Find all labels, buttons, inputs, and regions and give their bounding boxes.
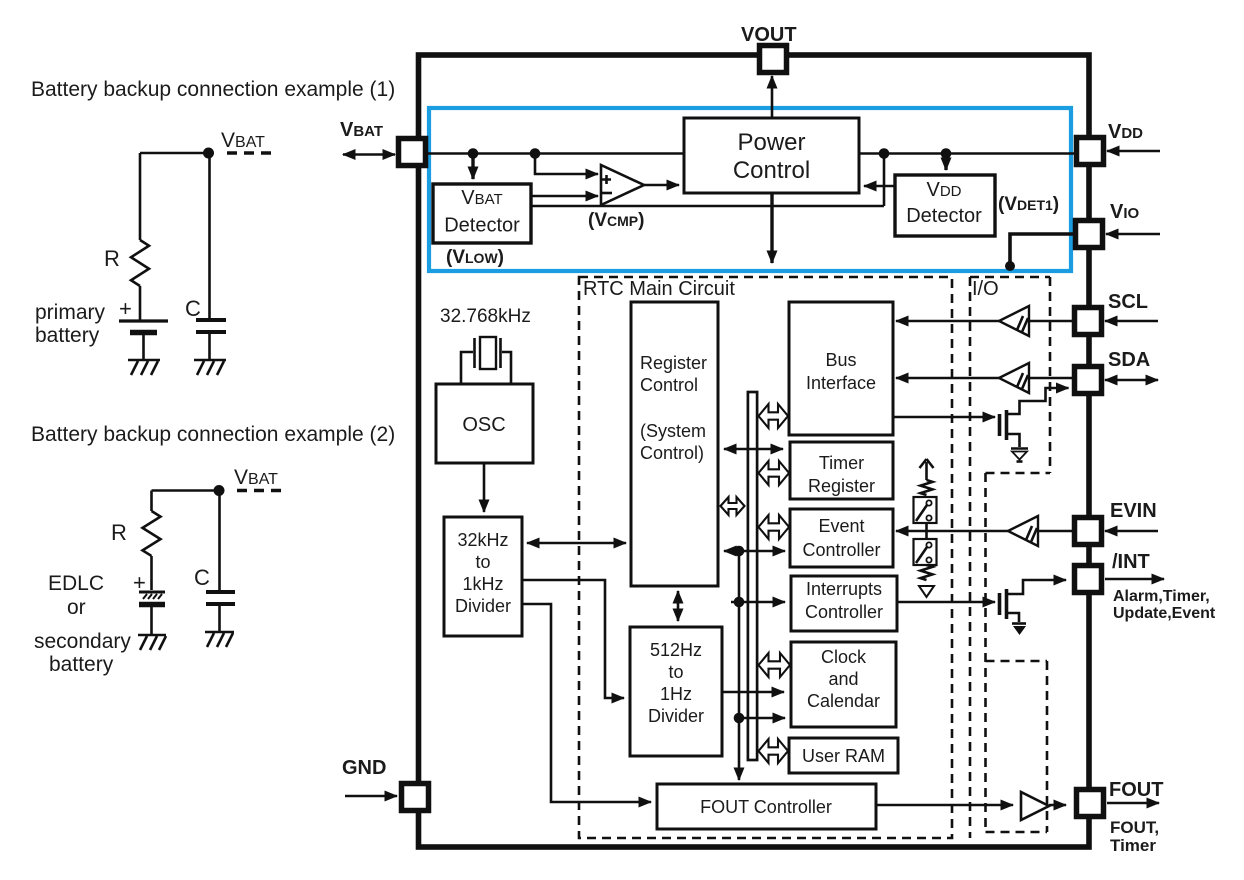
svg-text:(VCMP): (VCMP) <box>588 210 644 231</box>
svg-text:32.768kHz: 32.768kHz <box>440 306 531 327</box>
svg-text:Control: Control <box>733 157 810 184</box>
svg-text:to: to <box>475 552 490 572</box>
svg-text:to: to <box>668 662 683 682</box>
svg-text:Detector: Detector <box>906 205 982 227</box>
svg-text:512Hz: 512Hz <box>650 640 702 660</box>
svg-text:and: and <box>828 669 858 689</box>
svg-text:EDLC: EDLC <box>48 572 104 595</box>
svg-text:Bus: Bus <box>825 350 856 370</box>
svg-text:primary: primary <box>35 301 106 324</box>
svg-text:Update,Event: Update,Event <box>1113 605 1216 622</box>
svg-text:+: + <box>133 570 146 595</box>
svg-text:SCL: SCL <box>1108 291 1148 313</box>
svg-text:GND: GND <box>342 757 386 779</box>
svg-text:Control: Control <box>640 375 698 395</box>
svg-text:secondary: secondary <box>34 630 131 653</box>
svg-text:+: + <box>119 296 132 321</box>
svg-text:VBAT: VBAT <box>461 187 502 209</box>
svg-text:Controller: Controller <box>805 602 883 622</box>
svg-text:Timer: Timer <box>819 453 864 473</box>
svg-text:Power: Power <box>737 129 805 156</box>
svg-text:VDD: VDD <box>926 179 961 201</box>
svg-text:EVIN: EVIN <box>1110 500 1157 522</box>
svg-text:User RAM: User RAM <box>802 746 885 766</box>
svg-text:or: or <box>67 596 86 619</box>
svg-text:Calendar: Calendar <box>807 691 880 711</box>
svg-text:C: C <box>185 296 201 321</box>
svg-text:VBAT: VBAT <box>221 129 265 152</box>
svg-text:Controller: Controller <box>802 540 880 560</box>
svg-text:OSC: OSC <box>462 414 505 436</box>
svg-text:Timer: Timer <box>1110 836 1156 855</box>
svg-text:(VLOW): (VLOW) <box>446 247 504 268</box>
svg-text:Divider: Divider <box>455 596 511 616</box>
svg-text:Battery backup connection exam: Battery backup connection example (2) <box>31 423 395 446</box>
svg-text:Clock: Clock <box>821 647 867 667</box>
svg-text:RTC Main Circuit: RTC Main Circuit <box>583 278 735 300</box>
svg-text:Interrupts: Interrupts <box>806 579 882 599</box>
svg-text:battery: battery <box>49 653 114 676</box>
svg-text:VDD: VDD <box>1108 121 1143 143</box>
svg-text:VOUT: VOUT <box>741 24 797 46</box>
svg-text:C: C <box>194 565 210 590</box>
svg-text:SDA: SDA <box>1108 349 1150 371</box>
svg-text:VBAT: VBAT <box>340 119 383 141</box>
svg-text:VBAT: VBAT <box>234 466 278 489</box>
svg-text:battery: battery <box>35 324 100 347</box>
svg-text:Control): Control) <box>640 443 704 463</box>
svg-text:Interface: Interface <box>806 373 876 393</box>
svg-text:Alarm,Timer,: Alarm,Timer, <box>1113 588 1210 605</box>
svg-text:Register: Register <box>640 353 707 373</box>
svg-text:Event: Event <box>818 516 864 536</box>
svg-text:(System: (System <box>640 421 706 441</box>
svg-text:FOUT Controller: FOUT Controller <box>700 797 832 817</box>
svg-text:FOUT,: FOUT, <box>1110 818 1159 837</box>
svg-text:R: R <box>104 246 120 271</box>
svg-text:/INT: /INT <box>1112 551 1150 573</box>
svg-text:1kHz: 1kHz <box>462 574 503 594</box>
svg-text:Detector: Detector <box>444 215 520 237</box>
svg-text:I/O: I/O <box>972 278 999 300</box>
svg-text:FOUT: FOUT <box>1109 779 1163 801</box>
svg-text:1Hz: 1Hz <box>660 684 692 704</box>
svg-text:(VDET1): (VDET1) <box>998 194 1059 215</box>
svg-text:32kHz: 32kHz <box>457 530 508 550</box>
svg-text:VIO: VIO <box>1110 201 1140 223</box>
svg-text:R: R <box>111 520 127 545</box>
svg-text:Register: Register <box>808 476 875 496</box>
svg-text:Divider: Divider <box>648 706 704 726</box>
svg-text:Battery backup connection exam: Battery backup connection example (1) <box>31 78 395 101</box>
